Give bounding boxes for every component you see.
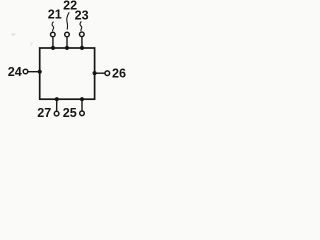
svg-text:21: 21 [48, 8, 62, 22]
svg-text:23: 23 [75, 9, 89, 23]
svg-text:24: 24 [8, 65, 22, 79]
svg-text:27: 27 [37, 106, 51, 120]
svg-text:25: 25 [63, 106, 77, 120]
svg-text:26: 26 [112, 66, 126, 80]
